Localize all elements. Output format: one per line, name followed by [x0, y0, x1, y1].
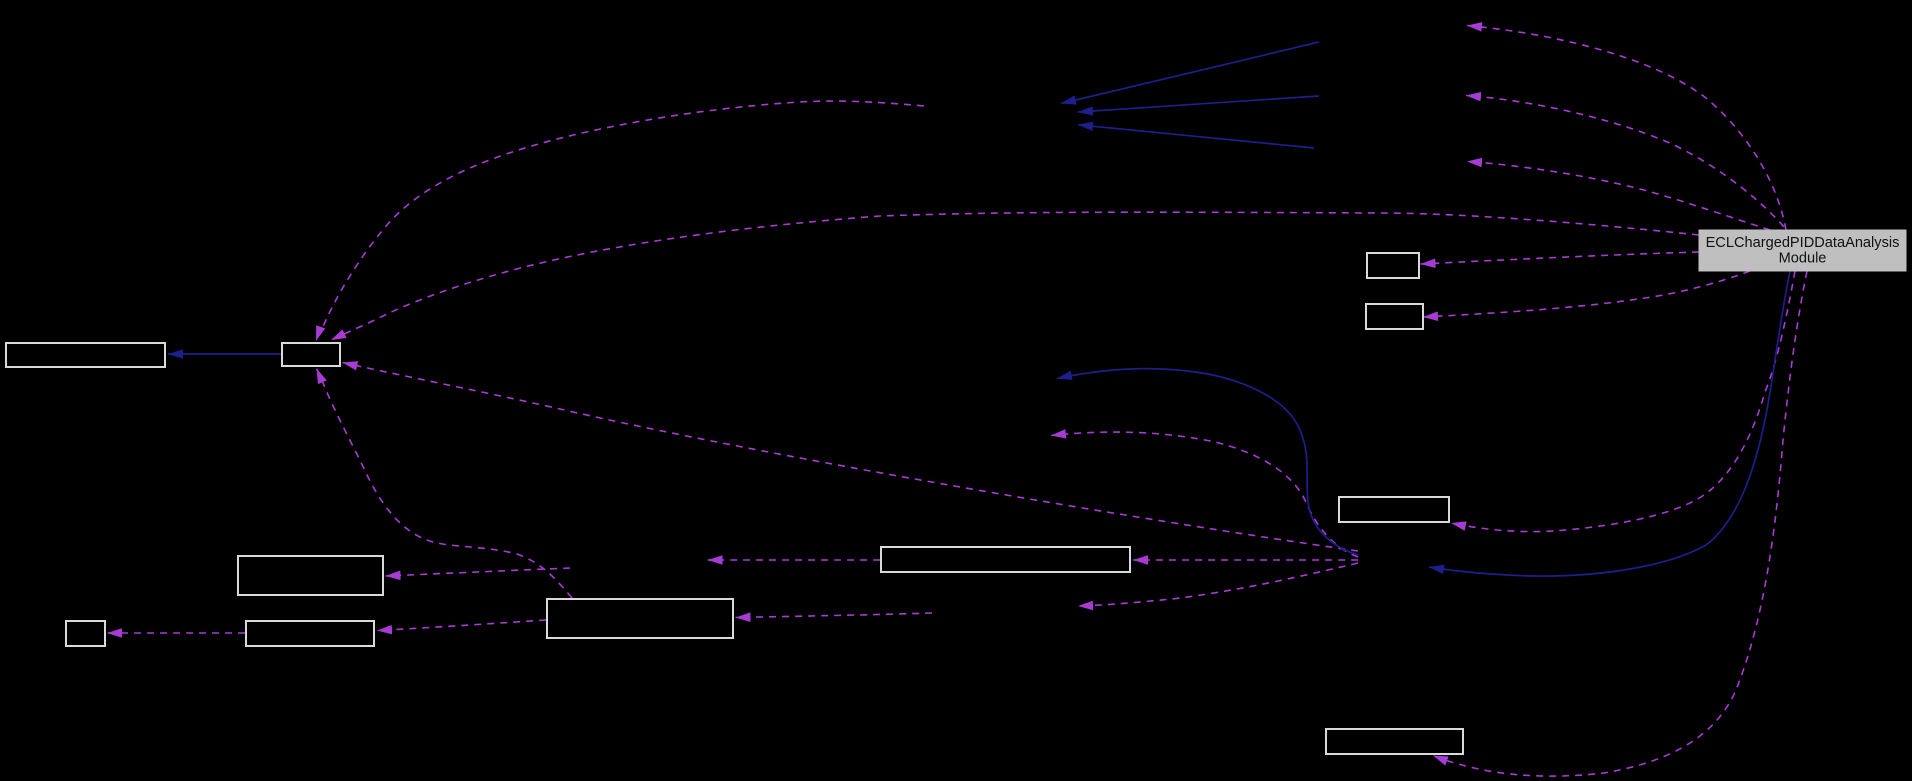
svg-text:ECLChargedPIDDataAnalysis: ECLChargedPIDDataAnalysis [1706, 235, 1900, 251]
svg-text:Module: Module [1779, 251, 1827, 267]
